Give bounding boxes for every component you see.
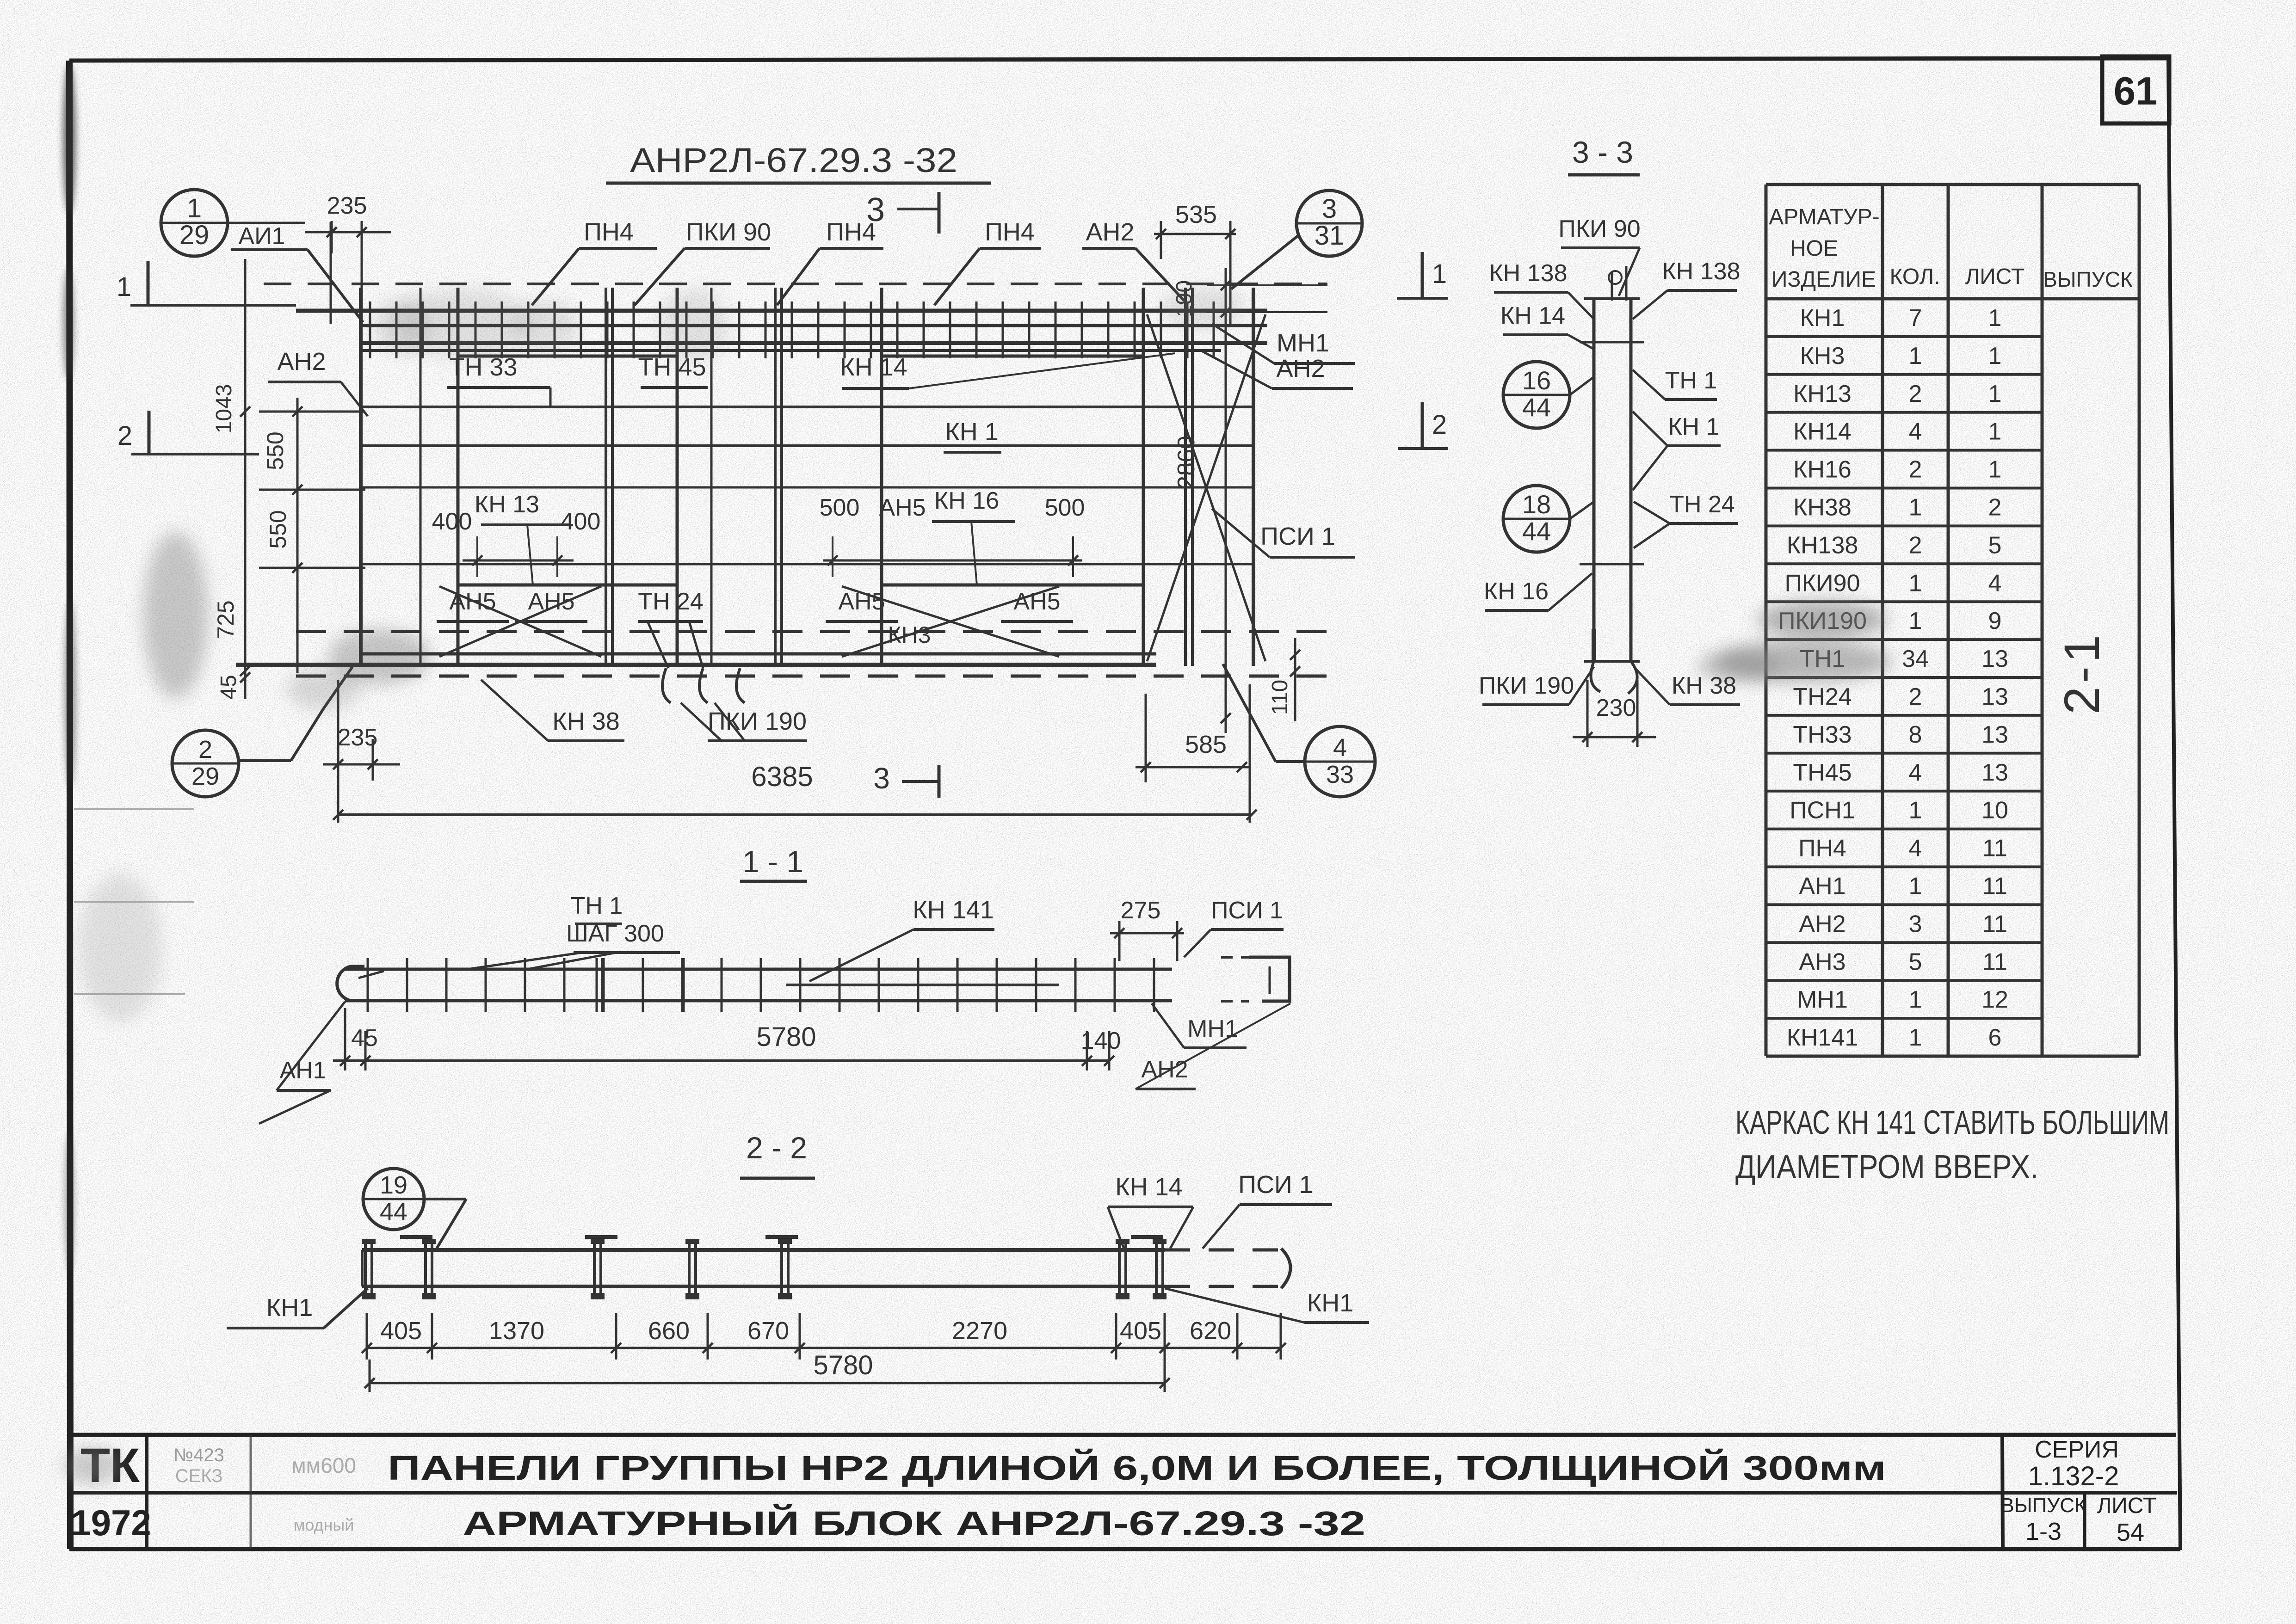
svg-text:44: 44 xyxy=(380,1198,407,1226)
svg-text:АНР2Л-67.29.3 -32: АНР2Л-67.29.3 -32 xyxy=(630,141,957,179)
svg-text:4: 4 xyxy=(1988,570,2002,597)
svg-text:КН14: КН14 xyxy=(1793,418,1852,445)
svg-text:АРМАТУРНЫЙ БЛОК АНР2Л-67.29.: АРМАТУРНЫЙ БЛОК АНР2Л-67.29.3 -32 xyxy=(463,1504,1365,1543)
svg-text:ПАНЕЛИ ГРУППЫ НР2 ДЛИНОЙ 6,: ПАНЕЛИ ГРУППЫ НР2 ДЛИНОЙ 6,0М И БОЛЕЕ, Т… xyxy=(388,1448,1886,1487)
svg-text:КН 138: КН 138 xyxy=(1489,260,1567,287)
svg-text:КН141: КН141 xyxy=(1787,1024,1858,1051)
svg-text:2: 2 xyxy=(1909,683,1922,710)
svg-text:44: 44 xyxy=(1522,517,1551,546)
svg-text:3: 3 xyxy=(1909,910,1922,937)
svg-text:ПН4: ПН4 xyxy=(826,218,876,246)
svg-text:13: 13 xyxy=(1981,683,2008,710)
svg-text:ДИАМЕТРОМ ВВЕРХ.: ДИАМЕТРОМ ВВЕРХ. xyxy=(1735,1149,2038,1186)
svg-text:ТН 1: ТН 1 xyxy=(1665,367,1717,394)
svg-text:2: 2 xyxy=(1432,410,1447,440)
svg-text:КН16: КН16 xyxy=(1793,456,1852,483)
svg-text:АН2: АН2 xyxy=(1086,218,1134,246)
svg-text:6: 6 xyxy=(1988,1024,2002,1051)
svg-text:275: 275 xyxy=(1121,897,1161,924)
svg-text:ИЗДЕЛИЕ: ИЗДЕЛИЕ xyxy=(1771,267,1876,292)
svg-text:КН 38: КН 38 xyxy=(1672,672,1736,699)
svg-text:2: 2 xyxy=(117,421,132,451)
svg-text:ПКИ 190: ПКИ 190 xyxy=(1479,672,1574,699)
svg-text:2860: 2860 xyxy=(1173,436,1200,489)
svg-text:ПКИ 90: ПКИ 90 xyxy=(1558,215,1640,242)
svg-text:мм600: мм600 xyxy=(291,1453,356,1477)
svg-text:660: 660 xyxy=(648,1317,690,1345)
svg-text:1.132-2: 1.132-2 xyxy=(2028,1461,2119,1491)
svg-text:КН 14: КН 14 xyxy=(1115,1173,1183,1201)
svg-text:620: 620 xyxy=(1190,1317,1231,1345)
svg-text:1: 1 xyxy=(1988,305,2002,332)
svg-text:33: 33 xyxy=(1326,761,1354,788)
svg-text:4: 4 xyxy=(1333,734,1347,762)
svg-text:10: 10 xyxy=(1981,797,2008,824)
svg-text:ПКИ 90: ПКИ 90 xyxy=(686,218,771,246)
svg-text:8: 8 xyxy=(1909,721,1922,748)
svg-text:585: 585 xyxy=(1185,731,1227,758)
svg-text:12: 12 xyxy=(1981,986,2008,1013)
svg-text:405: 405 xyxy=(380,1317,422,1345)
svg-text:9: 9 xyxy=(1988,608,2002,634)
svg-text:КН 1: КН 1 xyxy=(1668,413,1719,440)
svg-text:ТН45: ТН45 xyxy=(1793,759,1852,786)
svg-text:ПСН1: ПСН1 xyxy=(1790,797,1855,824)
svg-text:1 - 1: 1 - 1 xyxy=(742,844,803,879)
svg-text:29: 29 xyxy=(191,763,219,790)
svg-text:АИ1: АИ1 xyxy=(239,223,285,250)
svg-text:1: 1 xyxy=(1988,456,2002,483)
svg-text:670: 670 xyxy=(747,1317,789,1345)
svg-text:1: 1 xyxy=(1909,608,1922,634)
svg-text:550: 550 xyxy=(262,431,288,470)
svg-text:ПН4: ПН4 xyxy=(584,218,634,246)
svg-text:КН1: КН1 xyxy=(266,1294,313,1322)
svg-text:54: 54 xyxy=(2117,1519,2144,1546)
svg-text:АН2: АН2 xyxy=(1276,355,1325,382)
svg-text:1: 1 xyxy=(1909,343,1922,369)
svg-text:1972: 1972 xyxy=(71,1502,151,1543)
svg-text:1: 1 xyxy=(1909,570,1922,597)
svg-text:КН1: КН1 xyxy=(1307,1289,1354,1317)
svg-text:ПСИ 1: ПСИ 1 xyxy=(1211,897,1283,924)
svg-text:1: 1 xyxy=(1909,494,1922,521)
svg-text:КН 1: КН 1 xyxy=(945,418,999,446)
svg-text:1: 1 xyxy=(1909,797,1922,824)
svg-text:140: 140 xyxy=(1081,1027,1121,1054)
svg-text:2: 2 xyxy=(1909,456,1922,483)
svg-text:110: 110 xyxy=(1268,680,1292,715)
svg-text:КН 38: КН 38 xyxy=(552,707,620,735)
svg-text:1370: 1370 xyxy=(489,1317,544,1345)
svg-text:31: 31 xyxy=(1315,221,1345,251)
svg-text:235: 235 xyxy=(327,192,367,219)
svg-text:АН1: АН1 xyxy=(1799,873,1845,899)
svg-text:230: 230 xyxy=(1596,695,1636,721)
svg-text:2: 2 xyxy=(1909,381,1922,407)
svg-text:2: 2 xyxy=(198,736,212,763)
svg-text:1: 1 xyxy=(1909,1024,1922,1051)
svg-text:3: 3 xyxy=(873,762,890,795)
svg-text:13: 13 xyxy=(1981,646,2008,672)
svg-text:2270: 2270 xyxy=(952,1317,1007,1345)
svg-text:1: 1 xyxy=(1432,259,1447,289)
svg-text:АРМАТУР-: АРМАТУР- xyxy=(1769,205,1880,229)
svg-text:№423: №423 xyxy=(173,1445,224,1465)
svg-text:1: 1 xyxy=(187,193,202,223)
svg-text:1: 1 xyxy=(1988,381,2002,407)
svg-text:КН 16: КН 16 xyxy=(1484,578,1549,605)
svg-text:1: 1 xyxy=(1909,873,1922,899)
svg-text:11: 11 xyxy=(1982,873,2007,899)
svg-text:КН 14: КН 14 xyxy=(1500,302,1565,329)
svg-text:45: 45 xyxy=(216,675,241,699)
svg-text:КН138: КН138 xyxy=(1787,532,1858,559)
svg-text:13: 13 xyxy=(1981,759,2008,786)
svg-text:СЕКЗ: СЕКЗ xyxy=(175,1466,223,1486)
svg-text:2: 2 xyxy=(1988,494,2002,521)
svg-text:ПКИ90: ПКИ90 xyxy=(1785,570,1860,597)
svg-text:18: 18 xyxy=(1522,490,1551,519)
svg-text:13: 13 xyxy=(1981,721,2008,748)
svg-text:1-3: 1-3 xyxy=(2025,1518,2061,1545)
svg-text:11: 11 xyxy=(1982,948,2007,975)
svg-text:КН 16: КН 16 xyxy=(934,487,999,514)
svg-text:725: 725 xyxy=(213,600,239,639)
svg-text:5: 5 xyxy=(1988,532,2002,559)
svg-text:ПН4: ПН4 xyxy=(1798,835,1846,862)
svg-text:6385: 6385 xyxy=(751,761,813,792)
svg-text:400: 400 xyxy=(432,508,472,535)
svg-text:5780: 5780 xyxy=(813,1350,873,1380)
svg-text:405: 405 xyxy=(1120,1317,1161,1345)
svg-text:АН5: АН5 xyxy=(879,494,926,521)
svg-text:МН1: МН1 xyxy=(1187,1015,1238,1042)
svg-text:4: 4 xyxy=(1909,759,1922,786)
svg-text:ТН24: ТН24 xyxy=(1793,683,1852,710)
svg-text:АН1: АН1 xyxy=(279,1057,326,1084)
svg-text:ТН 1: ТН 1 xyxy=(571,892,623,919)
svg-text:550: 550 xyxy=(265,510,291,548)
svg-text:АН2: АН2 xyxy=(277,348,326,375)
svg-text:ПСИ 1: ПСИ 1 xyxy=(1238,1171,1313,1199)
svg-text:ВЫПУСК: ВЫПУСК xyxy=(2043,267,2133,291)
svg-text:ТН33: ТН33 xyxy=(1793,721,1852,748)
svg-text:2 - 2: 2 - 2 xyxy=(746,1131,807,1165)
svg-text:КН 13: КН 13 xyxy=(475,491,539,518)
svg-text:2: 2 xyxy=(1909,532,1922,559)
svg-text:КН 141: КН 141 xyxy=(913,896,994,924)
svg-text:7: 7 xyxy=(1909,305,1922,332)
svg-text:3 - 3: 3 - 3 xyxy=(1572,135,1633,169)
svg-text:АН5: АН5 xyxy=(1013,588,1060,615)
svg-text:КН38: КН38 xyxy=(1793,494,1852,521)
svg-text:ТН 24: ТН 24 xyxy=(1669,491,1735,518)
svg-text:44: 44 xyxy=(1522,393,1551,422)
svg-text:ЛИСТ: ЛИСТ xyxy=(2097,1494,2156,1518)
svg-text:11: 11 xyxy=(1982,835,2007,862)
svg-text:500: 500 xyxy=(1045,494,1085,521)
svg-text:1: 1 xyxy=(1988,343,2002,369)
svg-text:КН3: КН3 xyxy=(1800,343,1845,369)
svg-text:3: 3 xyxy=(1322,194,1337,224)
svg-text:КОЛ.: КОЛ. xyxy=(1889,265,1940,289)
svg-text:АН2: АН2 xyxy=(1141,1056,1188,1083)
svg-text:1: 1 xyxy=(1988,418,2002,445)
svg-text:235: 235 xyxy=(338,724,378,751)
svg-text:ТН 24: ТН 24 xyxy=(638,588,704,615)
svg-text:1: 1 xyxy=(1909,986,1922,1013)
svg-text:61: 61 xyxy=(2114,69,2158,113)
svg-text:29: 29 xyxy=(179,220,210,250)
svg-text:34: 34 xyxy=(1902,646,1929,672)
svg-text:535: 535 xyxy=(1175,201,1217,228)
svg-text:16: 16 xyxy=(1522,366,1551,395)
svg-text:1043: 1043 xyxy=(212,384,236,434)
svg-text:МН1: МН1 xyxy=(1277,329,1329,357)
svg-text:ЛИСТ: ЛИСТ xyxy=(1965,265,2024,289)
svg-text:19: 19 xyxy=(380,1171,407,1199)
svg-text:КАРКАС КН 141 СТАВИТЬ БОЛЬШИ: КАРКАС КН 141 СТАВИТЬ БОЛЬШИМ xyxy=(1735,1104,2169,1141)
svg-text:500: 500 xyxy=(820,494,860,521)
svg-text:модный: модный xyxy=(294,1515,354,1534)
svg-text:5: 5 xyxy=(1909,948,1922,975)
svg-text:НОЕ: НОЕ xyxy=(1790,236,1838,261)
svg-text:1: 1 xyxy=(117,272,131,302)
svg-text:4: 4 xyxy=(1909,418,1922,445)
svg-text:АН2: АН2 xyxy=(1799,910,1845,937)
svg-text:МН1: МН1 xyxy=(1797,986,1848,1013)
svg-text:КН 138: КН 138 xyxy=(1662,258,1740,285)
svg-text:СЕРИЯ: СЕРИЯ xyxy=(2035,1436,2119,1463)
svg-text:КН 14: КН 14 xyxy=(840,353,907,381)
svg-text:ШАГ 300: ШАГ 300 xyxy=(566,920,664,947)
svg-text:400: 400 xyxy=(561,508,601,535)
svg-text:11: 11 xyxy=(1982,910,2007,937)
svg-text:КН13: КН13 xyxy=(1793,381,1852,407)
svg-text:АН3: АН3 xyxy=(1799,948,1845,975)
svg-text:КН1: КН1 xyxy=(1800,305,1845,332)
svg-text:4: 4 xyxy=(1909,835,1922,862)
svg-text:ПСИ 1: ПСИ 1 xyxy=(1260,523,1335,550)
svg-text:2-1: 2-1 xyxy=(2054,631,2110,714)
svg-text:ВЫПУСК: ВЫПУСК xyxy=(2000,1494,2086,1517)
svg-text:ПН4: ПН4 xyxy=(985,218,1035,246)
svg-text:5780: 5780 xyxy=(756,1022,816,1052)
